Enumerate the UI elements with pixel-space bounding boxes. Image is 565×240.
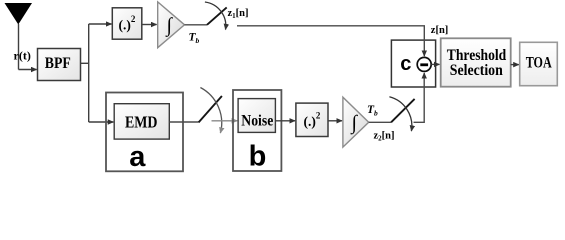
wire BPF output <box>81 62 89 64</box>
block TOA <box>520 42 558 85</box>
svg-text:b: b <box>249 141 267 173</box>
wire junction vertical <box>88 24 90 122</box>
wire squarer2 to integrator2 <box>328 120 342 122</box>
svg-text:EMD: EMD <box>125 113 158 132</box>
wire integrator1 to switch1 <box>185 24 208 26</box>
integrator amplifier 2 <box>343 97 369 147</box>
svg-text:Selection: Selection <box>450 62 503 79</box>
wire Threshold to TOA <box>511 64 519 66</box>
wire squarer1 to integrator1 <box>142 24 157 26</box>
svg-text:z1[n]: z1[n] <box>228 8 249 20</box>
switch 2 arm <box>199 96 222 122</box>
svg-text:z2[n]: z2[n] <box>374 130 395 142</box>
wire Noise to squarer2 <box>275 120 295 122</box>
svg-text:BPF: BPF <box>45 55 71 72</box>
block Noise <box>238 99 275 133</box>
switch 2 sampling arc <box>200 88 221 134</box>
svg-text:Noise: Noise <box>241 113 273 130</box>
block Threshold Selection <box>441 38 511 86</box>
integrator amplifier 1 <box>158 2 185 48</box>
switch 1 arm <box>207 7 227 24</box>
wire to squarer 1 <box>89 23 112 25</box>
wire to EMD <box>89 121 114 123</box>
block BPF <box>38 49 81 81</box>
svg-text:Tb: Tb <box>367 104 378 118</box>
svg-text:r(t): r(t) <box>14 49 31 63</box>
box a outer <box>106 93 183 172</box>
block EMD <box>114 104 169 139</box>
box b outer <box>233 90 281 171</box>
switch 3 sampling arc <box>389 97 411 131</box>
svg-text:TOA: TOA <box>526 55 552 72</box>
svg-text:c: c <box>400 53 411 75</box>
wire subtractor to Threshold <box>431 63 439 65</box>
switch 3 arm <box>391 99 415 122</box>
summing node minus <box>417 57 431 71</box>
antenna <box>5 3 33 70</box>
switch 1 sampling arc <box>205 2 226 30</box>
wire z1 to subtractor <box>237 26 424 56</box>
block squarer (.)^2 top <box>112 8 142 39</box>
wire EMD to switch2 <box>169 121 198 123</box>
box c subtractor <box>391 40 435 87</box>
wire antenna to BPF <box>19 69 37 71</box>
svg-text:z[n]: z[n] <box>431 25 449 36</box>
wire switch2 to Noise <box>212 120 238 122</box>
wire z2 to subtractor <box>414 73 425 122</box>
svg-text:a: a <box>129 141 146 173</box>
block squarer (.)^2 bottom <box>296 103 328 136</box>
svg-text:Tb: Tb <box>189 32 200 46</box>
wire integrator2 to switch3 <box>369 121 391 123</box>
